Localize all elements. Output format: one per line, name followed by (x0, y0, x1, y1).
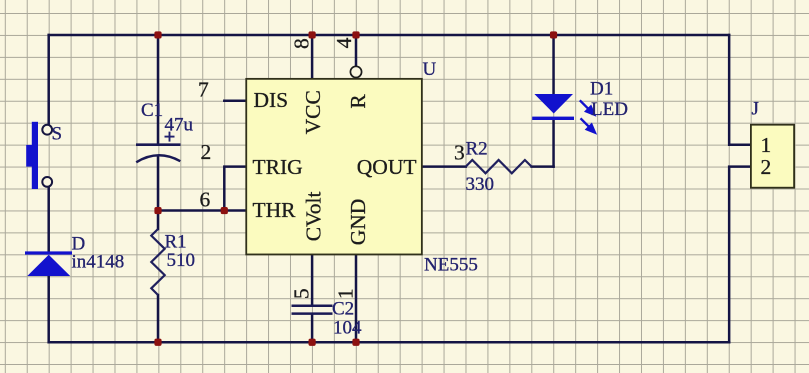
svg-text:LED: LED (591, 99, 628, 120)
junction node: bottom rail / C2 (309, 339, 316, 346)
svg-text:1: 1 (761, 133, 772, 157)
resistor R2 (466, 160, 532, 173)
wire J pin 2 to right rail lower (729, 167, 751, 343)
wire top rail (49, 34, 729, 37)
wire R pin 4 to bubble (355, 35, 358, 66)
svg-text:in4148: in4148 (72, 252, 125, 273)
wire LED cathode down to R2 node (552, 120, 555, 167)
svg-text:C2: C2 (332, 299, 354, 320)
junction node: bottom rail / GND (352, 339, 359, 346)
svg-text:NE555: NE555 (424, 254, 478, 275)
svg-text:330: 330 (466, 174, 495, 195)
junction node: top rail / pin 8 (309, 31, 316, 38)
LED arrow 1 (580, 100, 594, 114)
svg-text:J: J (752, 99, 759, 120)
wire R1 bottom lead (157, 295, 160, 342)
junction node: top rail / LED (550, 31, 557, 38)
switch S (26, 122, 52, 189)
label + polarity (165, 132, 175, 142)
svg-text:QOUT: QOUT (357, 155, 417, 179)
wire right rail upper to J pin 1 (729, 35, 751, 145)
svg-text:2: 2 (201, 140, 212, 164)
diode D 1n4148 (25, 251, 72, 276)
capacitor C1 (136, 145, 181, 163)
wire GND pin 1 to bottom rail (355, 254, 358, 342)
svg-text:R2: R2 (466, 139, 488, 160)
svg-text:4: 4 (332, 37, 356, 48)
wire bottom rail (49, 341, 729, 344)
wire switch to diode (47, 187, 50, 251)
pin 4 inversion bubble (350, 66, 361, 77)
svg-text:VCC: VCC (301, 90, 325, 134)
wire CVolt pin 5 to C2 (311, 254, 314, 305)
svg-text:THR: THR (253, 198, 297, 222)
capacitor C2 (292, 306, 333, 314)
junction node: top rail / pin 4 (352, 31, 359, 38)
junction node: bottom rail / R1 (154, 339, 161, 346)
wire DIS pin 7 stub (224, 100, 246, 103)
svg-text:5: 5 (290, 288, 314, 299)
wire R2 to LED branch (532, 165, 554, 168)
svg-text:2: 2 (761, 155, 772, 179)
wire C2 to bottom rail (311, 315, 314, 343)
svg-text:GND: GND (346, 199, 370, 246)
wire diode to bottom rail (47, 276, 50, 342)
svg-text:D1: D1 (590, 79, 613, 100)
svg-text:S: S (52, 124, 63, 145)
svg-text:7: 7 (198, 77, 209, 101)
junction node: THR / TRIG jog (221, 207, 228, 214)
wire LED anode from top rail (552, 35, 555, 94)
wire TRIG pin 2 jog (224, 167, 246, 211)
svg-text:TRIG: TRIG (253, 155, 303, 179)
resistor R1 (151, 229, 164, 295)
wire R1 top lead (157, 211, 160, 229)
svg-text:C1: C1 (141, 100, 163, 121)
wire VCC pin 8 (311, 35, 314, 79)
junction node: THR / C1-R1 (154, 207, 161, 214)
svg-text:8: 8 (290, 38, 314, 49)
wire QOUT pin 3 to R2 (422, 165, 466, 168)
wire C1 branch from top rail (157, 35, 160, 145)
connector J (751, 125, 794, 188)
junction node: top rail / C1 (154, 31, 161, 38)
wire C1 bottom to THR node (157, 156, 160, 211)
op-amp U1 body: NE555 IC box U (246, 79, 422, 255)
LED arrow 2 (581, 118, 595, 132)
svg-text:U: U (423, 59, 437, 80)
wire THR (node to pin 6) (158, 209, 246, 212)
wire left rail upper (VCC to switch) (47, 35, 50, 125)
svg-text:104: 104 (333, 318, 362, 339)
svg-text:R: R (346, 94, 370, 109)
svg-text:3: 3 (454, 141, 465, 165)
svg-text:510: 510 (167, 250, 196, 271)
LED D1 (532, 94, 595, 133)
svg-text:6: 6 (200, 187, 211, 211)
svg-text:CVolt: CVolt (302, 191, 326, 241)
svg-text:DIS: DIS (254, 88, 289, 112)
